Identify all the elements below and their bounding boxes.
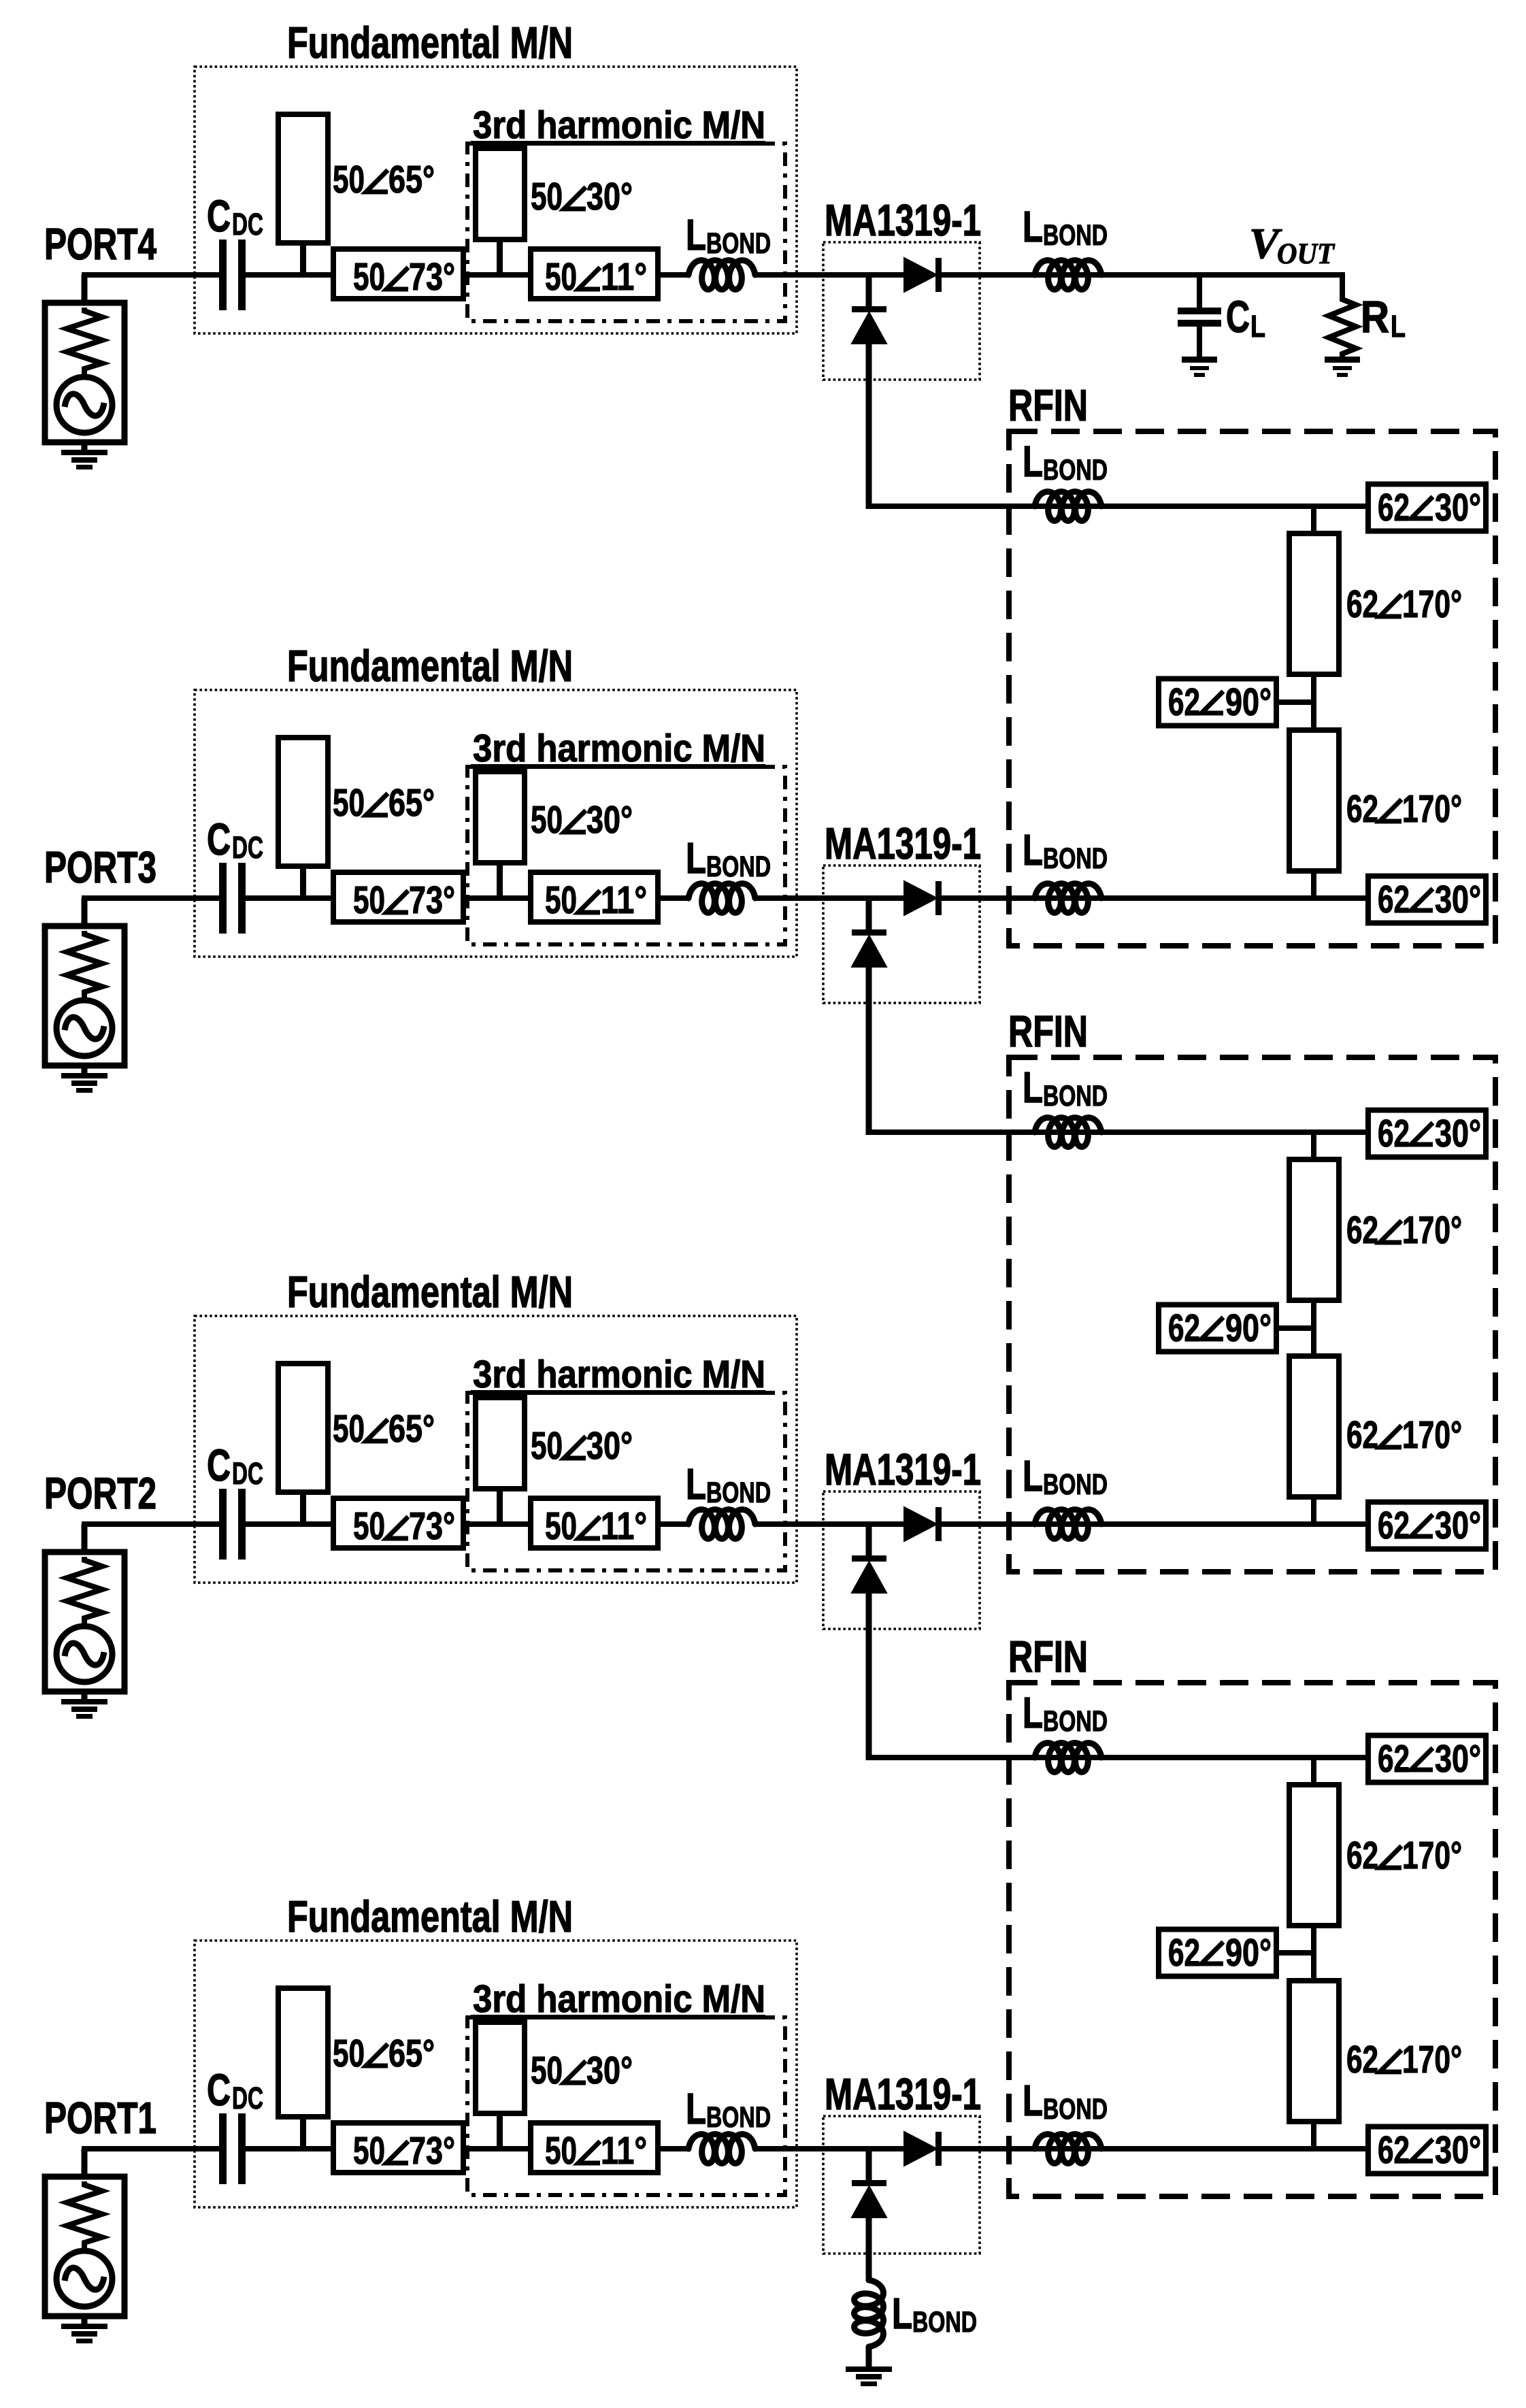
harmonic stub stem (PORT3) [497, 863, 503, 898]
stub TL 62∠170° upper rect (RFIN2) [1289, 1159, 1339, 1300]
wire PORT1 vertical lead [82, 2149, 88, 2177]
svg-text:50: 50 [333, 2032, 365, 2075]
ground PORT1 shunt [846, 2366, 892, 2386]
TL 62∠30° (RFIN1 bottom) text [1378, 878, 1481, 921]
RFIN3 top wire [866, 1755, 1368, 1760]
ground PORT4 [61, 450, 107, 469]
svg-text:L: L [1023, 202, 1043, 251]
value label 62∠170° (RFIN3 lower) [1346, 2038, 1462, 2081]
svg-text:MA1319-1: MA1319-1 [825, 2069, 981, 2119]
stub column stem top (RFIN1) [1311, 506, 1316, 536]
source box PORT3 [45, 926, 125, 1066]
MA1319-1 box (PORT2) [823, 1491, 980, 1629]
svg-text:62: 62 [1378, 486, 1410, 529]
svg-text:RFIN: RFIN [1008, 1632, 1088, 1681]
svg-text:90°: 90° [1225, 680, 1272, 724]
TL 62∠30° (RFIN2 bottom) text [1378, 1504, 1481, 1547]
harmonic stub stem (PORT2) [497, 1489, 503, 1524]
svg-text:170°: 170° [1402, 1413, 1462, 1457]
svg-text:L: L [1023, 1063, 1043, 1112]
value label 50∠30° (PORT1) [531, 2049, 633, 2092]
svg-text:50: 50 [531, 175, 563, 218]
ground R_L [1325, 357, 1360, 377]
svg-text:50: 50 [333, 158, 365, 201]
value label 50∠65° (PORT2) [333, 1407, 435, 1451]
Fundamental M/N box (PORT1) [195, 1941, 797, 2207]
svg-text:BOND: BOND [1043, 1705, 1108, 1738]
stub TL 62∠170° lower rect (RFIN1) [1289, 730, 1339, 871]
stub 62∠90° connect wire (RFIN3) [1276, 1950, 1314, 1956]
svg-text:BOND: BOND [1043, 1468, 1108, 1501]
wire L_BOND to diode (PORT1) [755, 2146, 906, 2151]
value label 50∠73° (PORT4) [353, 255, 455, 299]
3rd harmonic M/N box (PORT2) [467, 1393, 785, 1570]
ground PORT3 [61, 1073, 107, 1093]
svg-text:62: 62 [1378, 1112, 1410, 1155]
stub column stem top (RFIN2) [1311, 1132, 1316, 1162]
wire L_BOND to diode (PORT3) [755, 895, 906, 901]
svg-text:BOND: BOND [912, 2306, 977, 2339]
svg-text:30°: 30° [586, 175, 633, 218]
svg-text:30°: 30° [586, 798, 633, 842]
svg-text:C: C [207, 814, 231, 864]
svg-text:L: L [892, 2289, 912, 2338]
wire C_L to ground [1197, 327, 1202, 357]
wire port to C_DC (PORT3) [82, 895, 219, 901]
wire PORT2 vertical lead [82, 1524, 88, 1552]
MA1319-1 box (PORT3) [823, 865, 980, 1003]
wire PORT3 vertical lead [82, 898, 88, 926]
wire shunt diode feed down (PORT2) [866, 1591, 872, 1760]
svg-text:Fundamental M/N: Fundamental M/N [287, 18, 573, 67]
Fundamental M/N box (PORT2) [195, 1316, 797, 1583]
svg-text:3rd harmonic M/N: 3rd harmonic M/N [473, 103, 765, 147]
wire TL1 to stub2 (PORT2) [463, 1521, 531, 1527]
inductor L_BOND (RFIN2 top) [1035, 1118, 1101, 1147]
shunt diode (PORT1) [852, 2180, 886, 2217]
TL 62∠90° (RFIN2) text [1168, 1306, 1272, 1350]
TL 62∠90° (RFIN3) text [1168, 1931, 1272, 1975]
svg-text:Fundamental M/N: Fundamental M/N [287, 1892, 573, 1941]
svg-text:C: C [207, 191, 231, 241]
svg-text:11°: 11° [601, 255, 647, 299]
shunt diode (PORT4) [852, 306, 886, 344]
svg-text:11°: 11° [601, 878, 647, 922]
inductor L_BOND (RFIN3 bottom) [1035, 2134, 1101, 2164]
capacitor C_DC plates (PORT1) [219, 2113, 246, 2184]
capacitor C_L stem [1197, 275, 1202, 308]
wire source to ground PORT3 [82, 1066, 88, 1074]
stub column stem mid-upper (RFIN2) [1311, 1300, 1316, 1330]
wire source to ground PORT1 [82, 2316, 88, 2324]
wire L_BOND to ground (PORT1 shunt) [866, 2347, 872, 2367]
source AC circle PORT2 [56, 1626, 112, 1682]
svg-text:BOND: BOND [1043, 454, 1108, 486]
svg-text:62: 62 [1378, 878, 1410, 921]
shunt diode (PORT3) [852, 929, 886, 967]
svg-text:30°: 30° [1435, 878, 1481, 921]
ground C_L [1182, 357, 1217, 377]
series diode (PORT1) [904, 2132, 942, 2166]
inductor L_BOND (PORT1 shunt, vertical) [855, 2280, 884, 2347]
svg-text:RFIN: RFIN [1008, 1006, 1088, 1056]
shunt diode (PORT2) [852, 1555, 886, 1593]
TL 62∠90° (RFIN2) box [1159, 1305, 1276, 1352]
svg-text:PORT3: PORT3 [44, 842, 156, 892]
svg-text:50: 50 [333, 1407, 365, 1451]
svg-text:170°: 170° [1402, 2038, 1462, 2081]
wire C_DC to TL1 (PORT3) [246, 895, 333, 901]
svg-text:L: L [1250, 309, 1265, 344]
inductor L_BOND (RFIN2 bottom) [1035, 1510, 1101, 1539]
stub stem (PORT3) [300, 866, 306, 898]
svg-text:73°: 73° [409, 2129, 455, 2173]
svg-text:65°: 65° [388, 781, 435, 825]
source box PORT4 [45, 303, 125, 442]
value label 50∠11° (PORT1) [545, 2129, 647, 2173]
stub column stem bottom (RFIN3) [1311, 2119, 1316, 2149]
ground PORT2 [61, 1699, 107, 1719]
TL 62∠30° (RFIN3 top) box [1368, 1736, 1486, 1783]
value label 50∠65° (PORT1) [333, 2032, 435, 2075]
label L_BOND (RFIN3 top) [1023, 1688, 1108, 1738]
svg-text:L: L [686, 1459, 706, 1508]
value label 62∠170° (RFIN2 upper) [1346, 1208, 1462, 1252]
label L_BOND (PORT1 shunt) [892, 2289, 977, 2339]
stub column stem mid-lower (RFIN2) [1311, 1327, 1316, 1356]
3rd harmonic M/N box (PORT1) [467, 2017, 785, 2195]
TL 62∠30° (RFIN2 top) box [1368, 1110, 1486, 1157]
inductor L_BOND (PORT2) [689, 1510, 755, 1539]
label C_L [1226, 291, 1265, 344]
TL 62∠30° (RFIN2 top) text [1378, 1112, 1481, 1155]
stub TL 62∠170° upper rect (RFIN1) [1289, 533, 1339, 674]
Fundamental M/N box (PORT3) [195, 690, 797, 957]
svg-text:3rd harmonic M/N: 3rd harmonic M/N [473, 1977, 765, 2021]
RFIN2 top wire [866, 1129, 1368, 1135]
svg-text:30°: 30° [1435, 486, 1481, 529]
source sine symbol PORT4 [65, 394, 104, 416]
TL 62∠30° (RFIN3 top) text [1378, 1737, 1481, 1781]
svg-text:50: 50 [531, 1424, 563, 1468]
svg-text:30°: 30° [1435, 2128, 1481, 2172]
svg-text:PORT1: PORT1 [44, 2093, 156, 2143]
svg-text:62: 62 [1168, 1931, 1200, 1975]
svg-text:L: L [1023, 1688, 1043, 1737]
stub column stem mid-upper (RFIN3) [1311, 1926, 1316, 1954]
wire diode output (PORT3) [942, 895, 1368, 901]
svg-text:BOND: BOND [1043, 219, 1108, 252]
inductor L_BOND (PORT1) [689, 2134, 755, 2164]
svg-text:BOND: BOND [706, 227, 771, 260]
label L_BOND (PORT2) [686, 1459, 771, 1509]
shunt diode junction wire (PORT2) [866, 1524, 872, 1558]
stub column stem mid-lower (RFIN1) [1311, 701, 1316, 730]
MA1319-1 box (PORT1) [823, 2116, 980, 2254]
TL 62∠30° (RFIN3 bottom) text [1378, 2128, 1481, 2172]
source sine symbol PORT3 [65, 1017, 104, 1039]
underline 3rd harmonic M/N (PORT4) [471, 141, 765, 146]
svg-text:62: 62 [1378, 1504, 1410, 1547]
svg-text:50: 50 [353, 1504, 385, 1548]
underline 3rd harmonic M/N (PORT2) [471, 1390, 765, 1395]
series TL box 50&#8736;73&#176; (PORT3) [333, 872, 463, 922]
svg-text:C: C [1226, 291, 1250, 342]
open stub 50&#8736;65&#176; rect (PORT4) [278, 114, 328, 243]
svg-text:30°: 30° [586, 2049, 633, 2092]
ground PORT1 [61, 2324, 107, 2343]
svg-text:170°: 170° [1402, 582, 1462, 626]
open stub 50&#8736;65&#176; rect (PORT3) [278, 738, 328, 866]
svg-text:50: 50 [531, 2049, 563, 2092]
svg-text:50: 50 [353, 878, 385, 922]
3rd harmonic M/N box (PORT4) [467, 144, 785, 321]
wire C_DC to TL1 (PORT2) [246, 1521, 333, 1527]
series TL box 50&#8736;73&#176; (PORT2) [333, 1498, 463, 1548]
svg-text:BOND: BOND [1043, 842, 1108, 875]
harmonic stub 50&#8736;30&#176; rect (PORT3) [476, 772, 525, 863]
inductor L_BOND (RFIN3 top) [1035, 1743, 1101, 1772]
svg-text:L: L [686, 2084, 706, 2133]
stub stem (PORT4) [300, 243, 306, 275]
svg-text:DC: DC [232, 207, 263, 242]
label L_BOND (PORT4 output) [1023, 202, 1108, 252]
value label 50∠11° (PORT4) [545, 255, 647, 299]
series diode (PORT3) [904, 881, 942, 915]
wire PORT4 vertical lead [82, 275, 88, 303]
label L_BOND (RFIN1 top) [1023, 437, 1108, 486]
svg-text:50: 50 [531, 798, 563, 842]
svg-text:65°: 65° [388, 1407, 435, 1451]
value label 62∠170° (RFIN1 upper) [1346, 582, 1462, 626]
capacitor C_L plates [1178, 308, 1221, 327]
stub TL 62∠170° upper rect (RFIN3) [1289, 1785, 1339, 1926]
wire port to C_DC (PORT2) [82, 1521, 219, 1527]
wire L_BOND to diode (PORT4) [755, 272, 906, 278]
stub column stem bottom (RFIN2) [1311, 1494, 1316, 1524]
svg-text:RFIN: RFIN [1008, 380, 1088, 430]
TL 62∠90° (RFIN1) text [1168, 680, 1272, 724]
wire TL1 to stub2 (PORT1) [463, 2146, 531, 2151]
series TL box 50&#8736;11&#176; (PORT3) [531, 872, 658, 922]
wire port to C_DC (PORT1) [82, 2146, 219, 2151]
stub TL 62∠170° lower rect (RFIN3) [1289, 1981, 1339, 2122]
svg-text:L: L [1391, 309, 1406, 344]
wire TL2 to L_BOND (PORT2) [658, 1521, 690, 1527]
label L_BOND (RFIN1 bottom) [1023, 825, 1108, 875]
wire TL1 to stub2 (PORT4) [463, 272, 531, 278]
svg-text:OUT: OUT [1277, 238, 1336, 270]
label R_L [1361, 291, 1406, 344]
stub column stem mid-upper (RFIN1) [1311, 674, 1316, 704]
wire TL2 to L_BOND (PORT3) [658, 895, 690, 901]
MA1319-1 box (PORT4) [823, 242, 980, 380]
series TL box 50&#8736;11&#176; (PORT1) [531, 2123, 658, 2173]
open stub 50&#8736;65&#176; rect (PORT1) [278, 1988, 328, 2117]
stub stem (PORT1) [300, 2117, 306, 2149]
harmonic stub 50&#8736;30&#176; rect (PORT2) [476, 1398, 525, 1489]
svg-text:DC: DC [232, 2081, 263, 2115]
wire source to ground PORT2 [82, 1692, 88, 1700]
svg-text:MA1319-1: MA1319-1 [825, 819, 981, 868]
shunt diode junction wire (PORT4) [866, 275, 872, 309]
value label 50∠30° (PORT4) [531, 175, 633, 218]
svg-text:C: C [207, 1440, 231, 1490]
source box PORT2 [45, 1552, 125, 1692]
RFIN box 3 [1009, 1683, 1495, 2196]
RFIN box 1 [1009, 431, 1495, 946]
svg-text:MA1319-1: MA1319-1 [825, 195, 981, 245]
capacitor C_DC plates (PORT3) [219, 863, 246, 934]
svg-text:11°: 11° [601, 2129, 647, 2173]
value label 50∠73° (PORT2) [353, 1504, 455, 1548]
capacitor C_DC plates (PORT2) [219, 1489, 246, 1560]
wire TL1 to stub2 (PORT3) [463, 895, 531, 901]
svg-text:DC: DC [232, 830, 263, 865]
svg-text:50: 50 [545, 255, 577, 299]
inductor L_BOND (RFIN1 top) [1035, 492, 1101, 521]
underline 3rd harmonic M/N (PORT3) [471, 764, 765, 769]
harmonic stub stem (PORT1) [497, 2113, 503, 2149]
TL 62∠30° (RFIN3 bottom) box [1368, 2127, 1486, 2174]
value label 62∠170° (RFIN2 lower) [1346, 1413, 1462, 1457]
wire C_DC to TL1 (PORT4) [246, 272, 333, 278]
source AC circle PORT4 [56, 377, 112, 433]
harmonic stub 50&#8736;30&#176; rect (PORT1) [476, 2022, 525, 2113]
source sine symbol PORT1 [65, 2268, 104, 2290]
svg-text:3rd harmonic M/N: 3rd harmonic M/N [473, 727, 765, 770]
series TL box 50&#8736;73&#176; (PORT4) [333, 249, 463, 299]
label L_BOND (RFIN3 bottom) [1023, 2076, 1108, 2126]
svg-text:50: 50 [545, 878, 577, 922]
harmonic stub stem (PORT4) [497, 240, 503, 275]
svg-text:BOND: BOND [706, 1477, 771, 1509]
value label 50∠65° (PORT3) [333, 781, 435, 825]
value label 50∠30° (PORT2) [531, 1424, 633, 1468]
wire source to ground PORT4 [82, 442, 88, 450]
value label 50∠30° (PORT3) [531, 798, 633, 842]
label L_BOND (PORT4) [686, 210, 771, 260]
label L_BOND (RFIN2 top) [1023, 1063, 1108, 1112]
svg-text:90°: 90° [1225, 1931, 1272, 1975]
svg-text:62: 62 [1378, 2128, 1410, 2172]
svg-text:170°: 170° [1402, 1834, 1462, 1877]
svg-text:50: 50 [545, 2129, 577, 2173]
label C_DC (PORT2) [207, 1440, 263, 1491]
wire diode output (PORT2) [942, 1521, 1368, 1527]
inductor L_BOND (PORT3) [689, 884, 755, 913]
source resistor PORT1 [67, 2181, 102, 2250]
svg-text:73°: 73° [409, 878, 455, 922]
RFIN box 2 [1009, 1057, 1495, 1572]
value label 62∠170° (RFIN3 upper) [1346, 1834, 1462, 1877]
source AC circle PORT1 [56, 2251, 112, 2307]
stub column stem mid-lower (RFIN3) [1311, 1951, 1316, 1981]
label L_BOND (PORT1) [686, 2084, 771, 2134]
svg-text:BOND: BOND [1043, 1080, 1108, 1112]
wire shunt diode feed down (PORT3) [866, 966, 872, 1135]
TL 62∠90° (RFIN3) box [1159, 1930, 1276, 1977]
svg-text:L: L [686, 210, 706, 259]
svg-text:62: 62 [1168, 1306, 1200, 1350]
svg-text:50: 50 [353, 255, 385, 299]
svg-text:PORT4: PORT4 [44, 219, 156, 269]
label L_BOND (RFIN2 bottom) [1023, 1451, 1108, 1501]
shunt diode junction wire (PORT1) [866, 2149, 872, 2183]
value label 62∠170° (RFIN1 lower) [1346, 787, 1462, 831]
series TL box 50&#8736;73&#176; (PORT1) [333, 2123, 463, 2173]
series TL box 50&#8736;11&#176; (PORT2) [531, 1498, 658, 1548]
svg-text:65°: 65° [388, 2032, 435, 2075]
RFIN1 top wire [866, 504, 1368, 509]
source sine symbol PORT2 [65, 1643, 104, 1665]
svg-text:L: L [686, 834, 706, 883]
wire C_DC to TL1 (PORT1) [246, 2146, 333, 2151]
TL 62∠30° (RFIN1 top) text [1378, 486, 1481, 529]
svg-text:30°: 30° [1435, 1112, 1481, 1155]
stub column stem bottom (RFIN1) [1311, 868, 1316, 898]
svg-text:BOND: BOND [1043, 2093, 1108, 2126]
source AC circle PORT3 [56, 1000, 112, 1056]
svg-text:90°: 90° [1225, 1306, 1272, 1350]
svg-text:62: 62 [1346, 1413, 1378, 1457]
svg-text:62: 62 [1346, 1834, 1378, 1877]
svg-text:3rd harmonic M/N: 3rd harmonic M/N [473, 1353, 765, 1396]
source box PORT1 [45, 2177, 125, 2316]
svg-text:62: 62 [1346, 1208, 1378, 1252]
svg-text:C: C [207, 2064, 231, 2115]
harmonic stub 50&#8736;30&#176; rect (PORT4) [476, 148, 525, 240]
svg-text:73°: 73° [409, 1504, 455, 1548]
inductor L_BOND (RFIN1 bottom) [1035, 884, 1101, 913]
value label 50∠65° (PORT4) [333, 158, 435, 201]
value label 50∠73° (PORT1) [353, 2129, 455, 2173]
label L_BOND (PORT3) [686, 834, 771, 883]
svg-text:62: 62 [1346, 582, 1378, 626]
svg-text:L: L [1023, 1451, 1043, 1500]
capacitor C_DC plates (PORT4) [219, 240, 246, 310]
svg-text:BOND: BOND [706, 2101, 771, 2134]
svg-text:73°: 73° [409, 255, 455, 299]
series diode (PORT4) [904, 258, 942, 292]
value label 50∠73° (PORT3) [353, 878, 455, 922]
shunt diode junction wire (PORT3) [866, 898, 872, 932]
stub stem (PORT2) [300, 1492, 306, 1524]
stub 62∠90° connect wire (RFIN1) [1276, 699, 1314, 705]
series diode (PORT2) [904, 1507, 942, 1541]
svg-text:170°: 170° [1402, 787, 1462, 831]
svg-text:170°: 170° [1402, 1208, 1462, 1252]
inductor L_BOND (PORT4 output) [1035, 261, 1101, 290]
svg-text:MA1319-1: MA1319-1 [825, 1445, 981, 1494]
svg-text:62: 62 [1346, 2038, 1378, 2081]
svg-text:Fundamental M/N: Fundamental M/N [287, 641, 573, 691]
wire L_BOND to diode (PORT2) [755, 1521, 906, 1527]
stub 62∠90° connect wire (RFIN2) [1276, 1325, 1314, 1331]
svg-text:R: R [1361, 291, 1389, 342]
label C_DC (PORT4) [207, 191, 263, 242]
svg-text:L: L [1023, 2076, 1043, 2125]
open stub 50&#8736;65&#176; rect (PORT2) [278, 1364, 328, 1492]
wire TL2 to L_BOND (PORT4) [658, 272, 690, 278]
svg-text:L: L [1023, 437, 1043, 486]
series TL box 50&#8736;11&#176; (PORT4) [531, 249, 658, 299]
TL 62∠30° (RFIN1 bottom) box [1368, 876, 1486, 923]
svg-text:Fundamental M/N: Fundamental M/N [287, 1267, 573, 1317]
source resistor PORT4 [67, 308, 102, 376]
label C_DC (PORT1) [207, 2064, 263, 2115]
wire shunt diode feed down (PORT4) [866, 342, 872, 509]
